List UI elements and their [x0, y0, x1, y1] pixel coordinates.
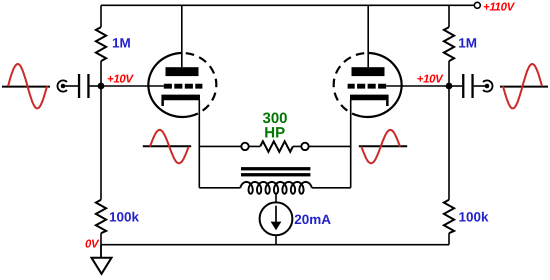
ground	[92, 258, 112, 274]
terminal RHP right	[301, 143, 308, 150]
signal sine output right	[500, 64, 548, 108]
resistor R1 1M left	[96, 27, 106, 61]
svg-text:+110V: +110V	[483, 1, 516, 13]
svg-text:1M: 1M	[112, 36, 131, 51]
signal sine input left	[2, 64, 50, 108]
svg-text:100k: 100k	[459, 210, 490, 225]
svg-text:+10V: +10V	[107, 73, 134, 85]
wire input jack to C1	[63, 85, 78, 87]
wire right branch verticals	[448, 5, 450, 244]
capacitor C2 plates	[471, 74, 473, 98]
signal sine cathode left	[143, 130, 191, 163]
wire ground stem	[100, 245, 102, 258]
triode V2 grid (dashed)	[348, 84, 387, 89]
capacitor C1 plates	[78, 74, 80, 98]
inductor core bars	[241, 167, 310, 170]
wire right grid	[386, 85, 449, 87]
wire left grid	[101, 85, 164, 87]
triode V1 plate	[166, 67, 199, 76]
wire left branch verticals	[100, 5, 102, 257]
wire bottom rail 0V	[101, 244, 449, 246]
terminal +110V	[474, 2, 480, 8]
svg-text:HP: HP	[264, 124, 285, 141]
wire plate lead V2	[367, 5, 369, 67]
wire cathode row to HP resistor	[199, 145, 350, 147]
resistor R2 1M right	[444, 27, 454, 61]
node B junction dot	[446, 83, 453, 90]
terminal RHP left	[241, 143, 248, 150]
wire top rail +110V	[101, 4, 474, 6]
node A junction dot	[98, 83, 105, 90]
current source I1	[260, 202, 293, 235]
wire plate lead V1	[181, 5, 183, 67]
wire current source to bottom rail	[275, 235, 277, 245]
svg-text:1M: 1M	[458, 36, 477, 51]
signal sine cathode right	[359, 130, 407, 163]
inductor L1 coil	[240, 182, 311, 194]
resistor RHP 300 headphone	[260, 141, 293, 152]
wire cathode lead V1 down to coil	[199, 100, 240, 188]
triode V2 envelope	[334, 53, 402, 117]
svg-text:100k: 100k	[109, 210, 140, 225]
triode V1 grid (dashed)	[164, 84, 203, 89]
wire coil center tap to current source	[275, 194, 277, 203]
triode V1 envelope	[148, 53, 216, 117]
triode V1 cathode	[161, 95, 200, 106]
svg-text:+10V: +10V	[417, 73, 444, 85]
wire C1 to node A	[90, 85, 101, 87]
triode V2 plate	[352, 67, 385, 76]
input jack terminal	[57, 80, 67, 91]
svg-text:0V: 0V	[85, 238, 100, 250]
svg-text:20mA: 20mA	[294, 212, 331, 227]
wire node B to C2	[449, 85, 462, 87]
resistor R3 100k left	[96, 200, 106, 233]
resistor R4 100k right	[444, 200, 454, 233]
triode V2 cathode	[350, 95, 389, 106]
wire C2 to output jack	[474, 85, 487, 87]
output jack terminal	[483, 80, 493, 91]
wire cathode lead V2 down to coil	[312, 100, 351, 188]
